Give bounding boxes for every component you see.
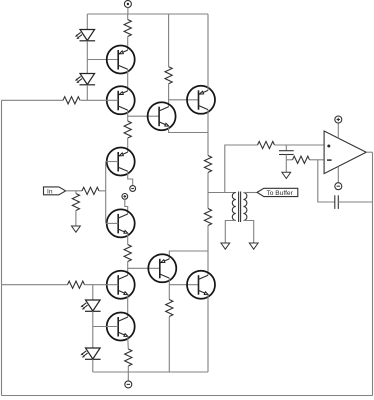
resistor R3 (124, 121, 131, 138)
wire R1 top lead (127, 14, 129, 20)
capacitor C1 (279, 145, 294, 160)
resistor R2 (63, 97, 80, 104)
wire RC branch vertical (225, 145, 258, 193)
wire T4 base stub (106, 222, 119, 224)
wire power stub (127, 8, 129, 15)
wire to Q8 base (128, 267, 160, 269)
wire C1 node to R13 (286, 159, 292, 161)
wire R3 to T3 emitter (127, 138, 129, 152)
terminal minus (130, 186, 136, 192)
wire R12 to opamp plus input (275, 144, 325, 146)
wire T1 base (87, 59, 118, 61)
wire In to junction (66, 190, 82, 192)
power V- terminal (125, 381, 132, 388)
wire C1 to ground (285, 160, 287, 173)
wire R6 to base tie (99, 190, 106, 192)
terminal plus (122, 194, 128, 200)
wire lower bias rail (2, 284, 68, 286)
transistor TL1 (107, 271, 135, 299)
wire T3 collector jog to minus terminal (128, 171, 133, 185)
resistor R4 (165, 67, 172, 84)
wire Q8 collector down (168, 278, 170, 299)
transistor Q9 (187, 271, 215, 299)
wire R7 to TL1 collector (127, 262, 129, 276)
wire TL2 base (93, 326, 118, 328)
wire left frame leg (1, 100, 3, 395)
wire base tie vertical (105, 162, 107, 224)
wire power stub bottom (127, 372, 129, 381)
resistor R11 (204, 209, 211, 226)
transistor T2 (107, 86, 135, 114)
wire T2 collector junction (127, 110, 129, 121)
bottom rail (93, 371, 208, 373)
wire R8 to rail (168, 317, 170, 373)
resistor R9 (125, 349, 132, 366)
connector In (44, 187, 66, 195)
wire R5 to ground (75, 211, 77, 227)
ground G1 (72, 226, 81, 232)
ground G3 (221, 243, 230, 249)
wire TL2 emitter to R9 (127, 336, 130, 349)
resistor R7 (124, 245, 131, 262)
wire right frame leg (372, 152, 374, 395)
wire Q7 emitter to main line (169, 126, 208, 133)
wire opamp output (366, 151, 372, 153)
connector To Buffer (257, 188, 298, 197)
ground G4 (249, 243, 258, 249)
LED D1 (75, 30, 95, 41)
wire LED chain top (86, 14, 88, 30)
transformer TR1 (232, 192, 247, 223)
svg-text:To Buffer: To Buffer (267, 190, 294, 197)
wire transformer primary bottom (225, 221, 236, 244)
wire R4 top lead (168, 14, 170, 67)
power opamp V- (335, 183, 342, 190)
transistor TL2 (107, 313, 135, 341)
wire T3 base stub (106, 161, 119, 163)
wire plus terminal jog to T4 collector (125, 199, 128, 214)
resistor R10 (204, 156, 211, 173)
resistor R13 (293, 156, 310, 163)
LED D4 (80, 348, 100, 359)
wire Q6 collector main line (207, 110, 209, 156)
wire D3 to TL2 base junction (92, 311, 94, 348)
wire transformer secondary bottom (243, 221, 253, 244)
wire R11 to Q8/Q9 junction (207, 226, 209, 276)
wire Q9 base (169, 284, 198, 286)
wire TL1 emitter to TL2 collector (127, 295, 129, 318)
wire T1 collector to T2 emitter (127, 69, 129, 91)
wire LED chain lower top (92, 285, 94, 300)
power V+ terminal (124, 1, 131, 8)
wire transformer primary top (208, 192, 236, 194)
wire R4 to Q7 junction (168, 84, 170, 107)
resistor R8 (166, 300, 173, 317)
wire bottom frame leg (2, 395, 373, 397)
wire Q9 emitter to rail (207, 295, 209, 373)
wire opamp V+ stub (337, 123, 339, 138)
transistor Q7 (148, 102, 176, 130)
wire R2 to T2 base (81, 99, 119, 101)
resistor R5 shunt (72, 194, 79, 211)
op-amp U1 (324, 131, 366, 174)
transistor Q6 (187, 86, 215, 114)
wire R5 top stub (75, 191, 77, 194)
transistor T1 (107, 46, 135, 74)
wire to Q7 base (128, 115, 159, 117)
wire opamp V- stub (337, 166, 339, 182)
wire D1-D2 (86, 41, 88, 74)
wire upper bias rail (2, 99, 64, 101)
wire T4 emitter to R7 (127, 233, 129, 244)
wire D2 to bias rail (86, 85, 88, 101)
transistor T4 (107, 209, 135, 237)
LED D3 (80, 300, 100, 311)
LED D2 (75, 74, 95, 85)
transistor T3 (107, 148, 135, 176)
wire junction to Q6 base (169, 99, 199, 101)
wire R1 to T1 emitter (127, 37, 129, 51)
wire R13 to opamp minus input (310, 159, 325, 161)
power opamp V+ (335, 116, 342, 123)
wire C2 to output leg (338, 201, 372, 203)
resistor R2b (68, 281, 85, 288)
svg-text:In: In (47, 188, 53, 195)
resistor R1 (124, 20, 131, 37)
ground G2 (282, 172, 291, 178)
wire R10 to transformer junction (207, 173, 209, 209)
resistor R12 (258, 141, 275, 148)
resistor R6 series input (82, 187, 99, 194)
wire feedback minus node vertical (318, 160, 335, 202)
wire transformer secondary top (243, 192, 257, 194)
wire Q8 emitter to main line (169, 251, 208, 259)
transistor Q8 (148, 254, 176, 282)
capacitor C2 (335, 195, 339, 209)
wire to TL1 base (85, 284, 119, 286)
top rail (87, 13, 208, 15)
wire D4 to bottom rail (92, 359, 94, 372)
wire R9 to rail (127, 366, 129, 372)
wire Q6 emitter to rail (207, 14, 209, 90)
